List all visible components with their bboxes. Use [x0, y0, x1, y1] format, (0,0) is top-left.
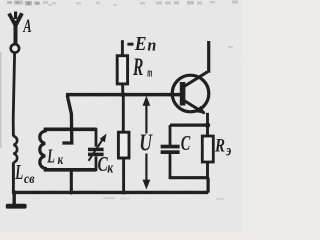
wire from -Eп	[121, 40, 124, 56]
wire loop corner to rail	[207, 178, 210, 193]
decorative scan noise	[0, 1, 238, 201]
resistor Rэ	[202, 125, 213, 179]
wire rail to ground	[12, 192, 15, 205]
wire tank top	[44, 127, 97, 131]
resistor divider lower	[118, 132, 129, 158]
wire base line	[66, 93, 180, 97]
node tank top junction	[70, 127, 74, 131]
wire tank bottom tap	[70, 170, 73, 193]
wire emitter loop top	[170, 123, 209, 126]
antenna A	[9, 12, 22, 53]
paper grain overlay	[0, 0, 241, 232]
label -Еп	[127, 43, 133, 46]
node rail tank junction	[69, 190, 73, 194]
wire antenna lead down	[13, 53, 14, 137]
node base/divider junction	[121, 92, 126, 97]
wire Lсв to rail	[12, 162, 15, 192]
arrow U measurement line	[143, 96, 151, 190]
resistor Rт	[117, 56, 127, 84]
wire divider resistor to rail	[122, 158, 125, 193]
wire emitter loop bottom	[169, 176, 209, 179]
wire base line to divider resistor	[122, 95, 125, 133]
node rail left junction	[12, 190, 16, 194]
coil Lсв	[13, 136, 17, 162]
wire bottom rail	[12, 191, 208, 194]
node emitter/loop junction	[205, 123, 210, 128]
transistor VT1	[172, 72, 209, 114]
ground	[6, 204, 27, 209]
wire emitter down	[206, 113, 209, 127]
wire tank bottom	[44, 168, 97, 172]
capacitor Ск	[88, 128, 107, 171]
node rail divider junction	[121, 190, 125, 194]
wire collector up	[207, 41, 210, 73]
capacitor C	[161, 125, 180, 179]
coil Lк	[40, 128, 46, 172]
wire base tap hook	[62, 96, 71, 144]
wire Rт to base line	[121, 84, 124, 96]
